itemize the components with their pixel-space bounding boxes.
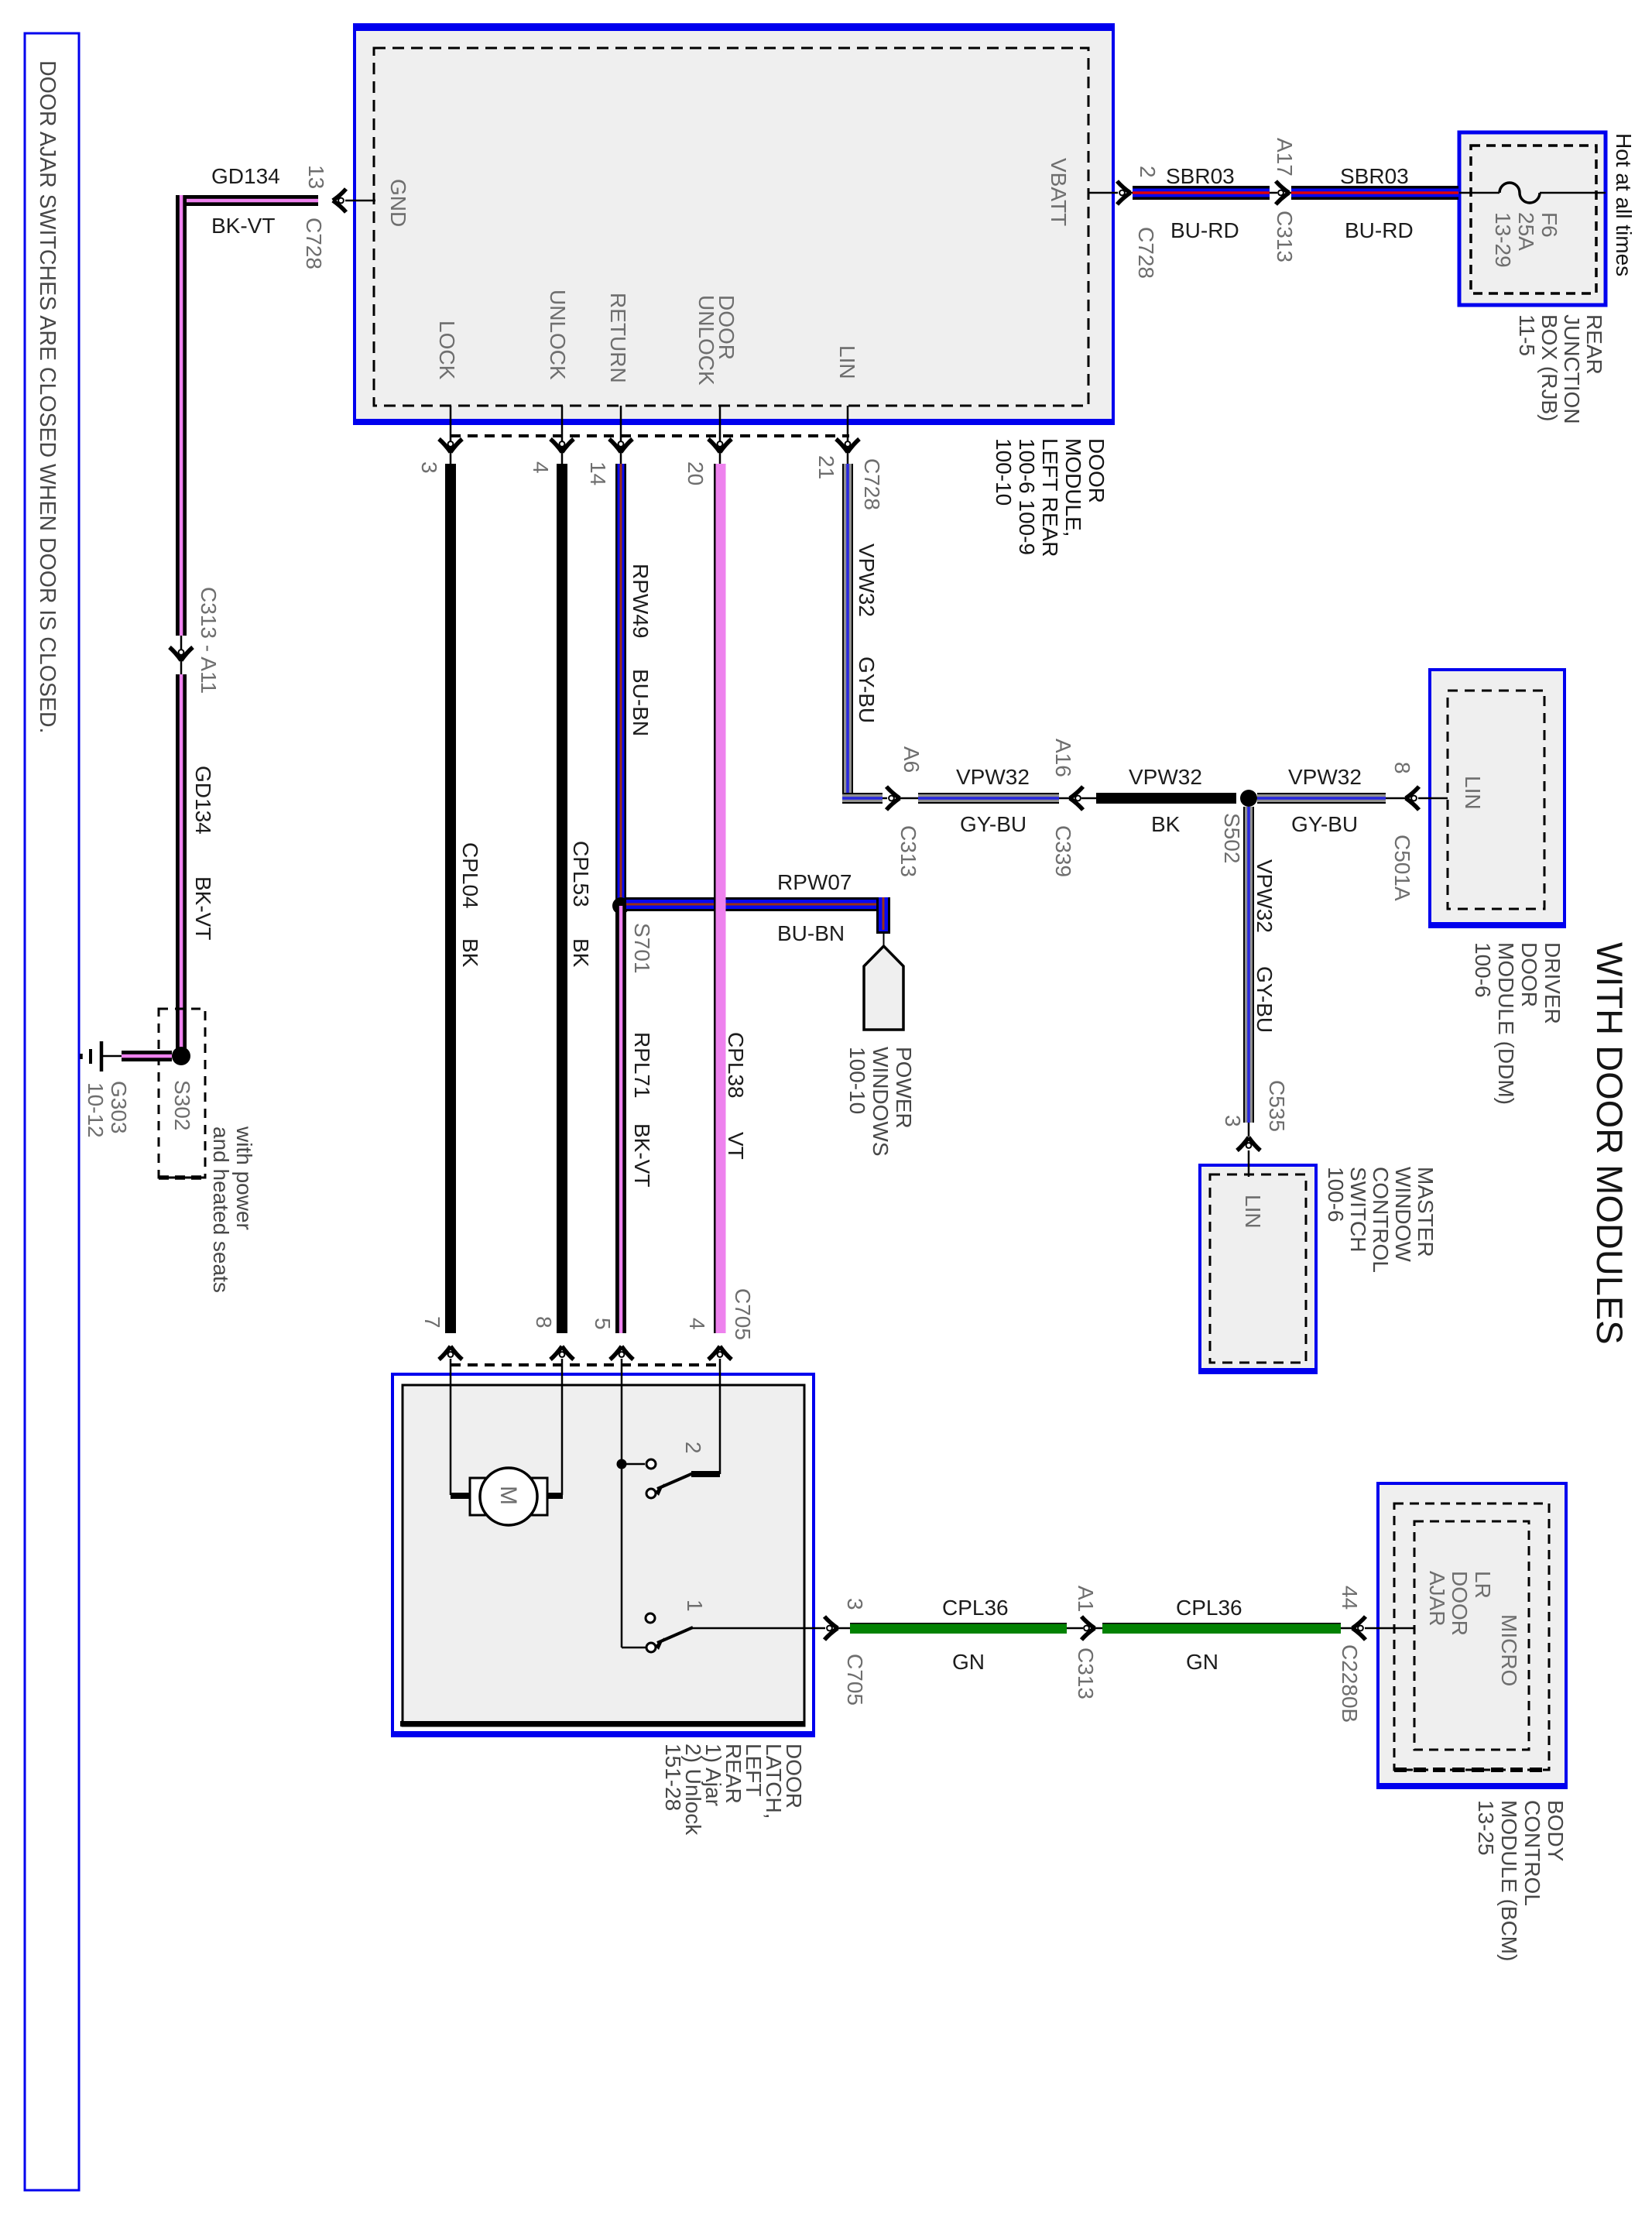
pin lead 20 — [719, 406, 721, 465]
svg-text:10-12: 10-12 — [84, 1082, 108, 1138]
switch 2 moving contact — [646, 1489, 656, 1498]
wire SBR03 BU-RD segment 2 — [1291, 186, 1458, 200]
svg-text:VPW32: VPW32 — [956, 765, 1030, 789]
svg-text:A6: A6 — [900, 746, 924, 773]
lead out of A1 — [1094, 1627, 1103, 1630]
power windows off-page wedge — [864, 946, 903, 1030]
svg-text:VPW32: VPW32 — [1129, 765, 1202, 789]
pin 13 GND lead — [345, 200, 375, 202]
master switch bottom thick border — [1198, 1368, 1318, 1374]
svg-text:21: 21 — [814, 455, 838, 479]
connector arrow C728 pin 20 — [708, 439, 732, 452]
DDM pin lead — [1418, 797, 1448, 800]
DDM inner dashed outline — [1448, 691, 1544, 909]
splice S302 junction dot — [172, 1047, 190, 1065]
connector arrow C705 pin 4 — [708, 1346, 732, 1360]
svg-text:MICRO: MICRO — [1497, 1614, 1521, 1686]
svg-text:13-29: 13-29 — [1491, 212, 1515, 268]
DDM bottom thick border — [1428, 922, 1566, 928]
RJB inner dashed outline — [1471, 146, 1596, 293]
pin lead 4 — [561, 406, 564, 465]
body control module (BCM) box — [1378, 1483, 1566, 1788]
svg-text:8: 8 — [1390, 762, 1414, 774]
svg-text:3: 3 — [1221, 1115, 1245, 1127]
svg-text:GN: GN — [952, 1650, 985, 1674]
svg-text:CPL04: CPL04 — [458, 842, 482, 909]
note box: door ajar switches note — [25, 33, 79, 2190]
wire CPL36 GN segment 2 — [1102, 1623, 1341, 1634]
svg-text:RETURN: RETURN — [606, 293, 630, 383]
svg-text:C339: C339 — [1051, 825, 1075, 877]
pin 2 VBATT lead — [1088, 192, 1118, 194]
lead to C535 arrow — [1248, 1123, 1250, 1137]
BCM outer dashed bottom bold edge — [1394, 1768, 1549, 1772]
latch inner rect bottom thick edge — [400, 1721, 804, 1726]
svg-text:RPW49: RPW49 — [629, 564, 653, 638]
lead to power windows — [883, 934, 885, 949]
connector arrow C535 pin 3 — [1237, 1137, 1260, 1150]
svg-text:BK: BK — [458, 938, 482, 968]
connector C728 dashed line — [451, 434, 849, 437]
svg-text:LIN: LIN — [1241, 1195, 1265, 1229]
door module inner dashed outline — [374, 48, 1088, 406]
svg-text:Hot at all times: Hot at all times — [1612, 133, 1636, 276]
svg-text:C2280B: C2280B — [1338, 1644, 1362, 1723]
door module left rear: box — [355, 25, 1113, 422]
switch 2 junction dot — [617, 1459, 627, 1469]
connector arrow C705 pin 3 — [824, 1617, 838, 1640]
svg-text:BU-RD: BU-RD — [1170, 218, 1239, 242]
svg-text:G303: G303 — [107, 1081, 131, 1134]
svg-text:13: 13 — [304, 165, 328, 189]
connector arrow C728 pin 13 — [333, 189, 346, 212]
svg-text:POWER: POWER — [892, 1047, 916, 1129]
svg-text:1: 1 — [683, 1600, 707, 1612]
wire GD134 BK-VT vertical run lower — [176, 674, 187, 1056]
connector C313-A11 lead — [180, 636, 183, 674]
master switch pin lead — [1248, 1150, 1250, 1177]
svg-text:7: 7 — [420, 1316, 444, 1329]
svg-text:CPL36: CPL36 — [942, 1596, 1009, 1620]
motor terminal tabs — [470, 1478, 485, 1515]
svg-text:A1: A1 — [1074, 1586, 1098, 1612]
svg-text:JUNCTION: JUNCTION — [1560, 314, 1584, 424]
svg-text:with power: with power — [232, 1126, 256, 1230]
door module box bottom thick border — [353, 419, 1115, 425]
svg-text:GY-BU: GY-BU — [960, 812, 1027, 836]
svg-text:WINDOW: WINDOW — [1391, 1167, 1415, 1262]
connector arrow C728 pin 2 — [1117, 181, 1130, 204]
svg-text:GY-BU: GY-BU — [855, 657, 879, 723]
fuse F6 symbol — [1499, 183, 1540, 203]
motor M — [480, 1468, 537, 1525]
wire CPL53 BK (unlock) — [557, 464, 567, 1333]
svg-text:5: 5 — [591, 1318, 615, 1330]
svg-text:BU-BN: BU-BN — [777, 921, 845, 945]
svg-text:AJAR: AJAR — [1425, 1571, 1449, 1627]
lead out of A17 — [1288, 192, 1293, 194]
svg-text:VBATT: VBATT — [1047, 158, 1071, 226]
rear junction box (RJB) — [1459, 132, 1606, 305]
svg-text:A17: A17 — [1273, 138, 1297, 177]
driver door module (DDM) box — [1430, 670, 1565, 927]
svg-text:CONTROL: CONTROL — [1369, 1167, 1393, 1273]
svg-text:4: 4 — [529, 461, 553, 474]
svg-text:S302: S302 — [170, 1080, 194, 1130]
svg-text:4: 4 — [685, 1318, 709, 1330]
splice S701 junction dot — [612, 897, 629, 914]
svg-text:BODY: BODY — [1544, 1800, 1568, 1862]
svg-text:GD134: GD134 — [211, 164, 280, 188]
door module box top thick border — [353, 23, 1115, 31]
svg-text:CONTROL: CONTROL — [1520, 1800, 1544, 1906]
connector arrow A6/C313 — [886, 787, 900, 810]
svg-text:C313: C313 — [1074, 1648, 1098, 1699]
wire CPL38 VT (door unlock) — [714, 464, 716, 1333]
svg-text:MODULE,: MODULE, — [1061, 438, 1085, 537]
connector arrow C728 pin 14 — [609, 439, 632, 452]
svg-text:LEFT REAR: LEFT REAR — [1038, 438, 1062, 557]
switch 2 fixed contact — [646, 1459, 656, 1469]
wire VPW32 GY-BU vertical from pin 21 — [842, 464, 853, 804]
svg-text:GY-BU: GY-BU — [1253, 966, 1277, 1033]
splice S302 box bold bottom dashes — [159, 1175, 205, 1180]
svg-text:GN: GN — [1186, 1650, 1218, 1674]
switch 2 arm — [657, 1473, 693, 1489]
svg-text:2: 2 — [1136, 166, 1160, 178]
lead into A17 — [1270, 192, 1277, 194]
svg-text:44: 44 — [1338, 1586, 1362, 1610]
connector C705 dashed line — [451, 1363, 720, 1366]
connector arrow C728 pin 21 — [836, 439, 859, 452]
svg-text:2: 2 — [681, 1442, 705, 1454]
svg-text:25A: 25A — [1514, 212, 1538, 251]
motor feed stubs — [451, 1493, 471, 1499]
lead out of A16 — [1081, 797, 1097, 800]
master window control switch box — [1200, 1165, 1316, 1373]
wire RPW07 BU-BN — [626, 897, 890, 911]
pin lead 14 — [620, 406, 622, 465]
svg-text:DOOR: DOOR — [1085, 438, 1109, 503]
lead out of C728 pin 2 — [1129, 192, 1133, 194]
svg-text:WITH DOOR MODULES: WITH DOOR MODULES — [1589, 942, 1630, 1345]
BCM bottom thick border — [1376, 1783, 1568, 1789]
svg-text:151-28: 151-28 — [661, 1744, 685, 1811]
pin lead 21 — [847, 406, 849, 465]
lead out of C705 pin 3 — [837, 1627, 851, 1630]
svg-text:8: 8 — [532, 1316, 556, 1329]
ground lead line — [102, 1055, 122, 1058]
svg-text:VPW32: VPW32 — [1253, 859, 1277, 933]
switch 1 output line — [691, 1627, 825, 1630]
svg-text:BU-BN: BU-BN — [629, 669, 653, 736]
BCM outer dashed outline — [1394, 1504, 1549, 1770]
svg-text:CPL38: CPL38 — [724, 1032, 748, 1099]
connector arrow C705 pin 7 — [439, 1346, 462, 1360]
svg-text:GND: GND — [386, 179, 410, 227]
svg-text:LOCK: LOCK — [435, 321, 459, 380]
svg-text:CPL53: CPL53 — [569, 841, 593, 907]
svg-text:S701: S701 — [630, 923, 654, 973]
svg-text:LIN: LIN — [835, 345, 859, 379]
svg-text:13-25: 13-25 — [1474, 1800, 1498, 1856]
svg-text:MASTER: MASTER — [1414, 1167, 1438, 1257]
connector arrow C501A pin 8 — [1406, 787, 1419, 810]
svg-text:C705: C705 — [843, 1654, 867, 1706]
connector arrow A17/C313 — [1276, 181, 1289, 204]
fuse feed line — [1459, 192, 1499, 194]
connector arrow C728 pin 4 — [550, 439, 574, 452]
lead out of A6 — [899, 797, 919, 800]
wire VPW32 BK segment — [1096, 793, 1236, 804]
wire SBR03 BU-RD segment 1 — [1133, 186, 1270, 200]
wire RPW49 BU-BN (return) — [615, 464, 626, 906]
svg-text:11-5: 11-5 — [1515, 314, 1539, 356]
svg-text:BOX (RJB): BOX (RJB) — [1537, 314, 1561, 421]
svg-text:100-6: 100-6 — [1324, 1167, 1348, 1222]
svg-text:C313: C313 — [896, 825, 920, 877]
switch 2 stub — [622, 1463, 645, 1466]
svg-text:100-10: 100-10 — [992, 438, 1016, 506]
svg-text:100-6: 100-6 — [1471, 942, 1495, 998]
svg-text:C705: C705 — [731, 1288, 755, 1340]
svg-text:BK-VT: BK-VT — [211, 214, 275, 238]
wire BK-VT to ground — [122, 1051, 172, 1061]
svg-text:DOOR: DOOR — [1448, 1571, 1472, 1636]
switch 1 arm — [657, 1627, 693, 1643]
svg-text:DOOR: DOOR — [1517, 942, 1541, 1007]
svg-text:DOOR AJAR SWITCHES ARE CLOSED: DOOR AJAR SWITCHES ARE CLOSED WHEN DOOR … — [35, 60, 60, 733]
connector arrow C705 pin 8 — [550, 1346, 574, 1360]
svg-text:REAR: REAR — [1582, 314, 1606, 375]
master switch inner dashed outline — [1210, 1174, 1306, 1363]
svg-text:WINDOWS: WINDOWS — [869, 1047, 893, 1157]
svg-text:VPW32: VPW32 — [855, 543, 879, 617]
latch pin leads — [450, 1359, 452, 1495]
svg-text:SBR03: SBR03 — [1340, 164, 1409, 188]
connector arrow C705 pin 5 — [610, 1346, 633, 1360]
svg-text:GY-BU: GY-BU — [1291, 812, 1358, 836]
svg-text:100-10: 100-10 — [845, 1047, 869, 1114]
connector arrow C2280B pin 44 — [1352, 1617, 1366, 1640]
svg-text:MODULE (DDM): MODULE (DDM) — [1494, 942, 1518, 1105]
wire RPL71 BK-VT — [615, 906, 626, 1333]
connector arrow A1/C313 — [1081, 1617, 1095, 1640]
svg-text:CPL36: CPL36 — [1176, 1596, 1242, 1620]
ground symbol G303 — [100, 1041, 104, 1071]
svg-text:A16: A16 — [1051, 739, 1075, 777]
svg-text:MODULE (BCM): MODULE (BCM) — [1497, 1800, 1521, 1961]
svg-text:20: 20 — [684, 461, 708, 485]
svg-text:C501A: C501A — [1390, 835, 1414, 901]
svg-text:RPL71: RPL71 — [630, 1032, 654, 1099]
lead into C2280B — [1341, 1627, 1353, 1630]
wire RPW07 elbow down — [876, 897, 890, 934]
svg-text:M: M — [495, 1486, 521, 1505]
svg-text:BK: BK — [1151, 812, 1181, 836]
svg-text:S502: S502 — [1220, 813, 1244, 863]
svg-text:3: 3 — [417, 461, 441, 474]
svg-text:VPW32: VPW32 — [1288, 765, 1362, 789]
wire VPW32 GY-BU middle segment — [918, 793, 1059, 804]
svg-text:BK: BK — [569, 938, 593, 968]
splice S502 junction dot — [1240, 790, 1257, 807]
svg-text:C728: C728 — [860, 458, 884, 510]
pin lead 3 — [450, 406, 452, 465]
svg-text:and heated seats: and heated seats — [209, 1126, 233, 1293]
svg-text:SWITCH: SWITCH — [1346, 1167, 1370, 1252]
svg-text:C728: C728 — [302, 218, 326, 269]
splice S302 dashed box — [159, 1009, 205, 1178]
svg-text:3: 3 — [843, 1598, 867, 1610]
lead to DDM pin 8 — [1386, 797, 1406, 800]
svg-text:SBR03: SBR03 — [1166, 164, 1235, 188]
svg-text:C313: C313 — [1273, 211, 1297, 262]
connector arrow A16/C339 — [1070, 787, 1083, 810]
wire CPL04 BK (lock) — [445, 464, 456, 1333]
svg-text:LR: LR — [1471, 1571, 1495, 1599]
svg-text:GD134: GD134 — [191, 766, 215, 835]
svg-text:VT: VT — [724, 1132, 748, 1160]
wire VPW32 GY-BU to DDM — [1257, 793, 1386, 804]
svg-text:14: 14 — [586, 461, 610, 485]
svg-text:UNLOCK: UNLOCK — [694, 295, 718, 386]
latch box bottom thick border — [391, 1731, 815, 1737]
wire VPW32 GY-BU corner run — [842, 793, 883, 804]
svg-text:LIN: LIN — [1461, 776, 1485, 810]
svg-text:C728: C728 — [1134, 227, 1158, 279]
wire CPL36 GN segment 1 — [850, 1623, 1067, 1634]
switch 2 wire to pin 4 — [691, 1471, 720, 1477]
switch 1 fixed contact — [646, 1613, 655, 1623]
svg-text:BK-VT: BK-VT — [191, 876, 215, 940]
svg-text:UNLOCK: UNLOCK — [546, 290, 570, 380]
svg-text:BK-VT: BK-VT — [630, 1123, 654, 1187]
svg-text:C313 - A11: C313 - A11 — [197, 587, 221, 694]
lead into A16 — [1059, 797, 1071, 800]
switch 1 elbow — [622, 1647, 646, 1649]
door latch left rear box — [392, 1374, 814, 1736]
svg-text:100-6 100-9: 100-6 100-9 — [1015, 438, 1039, 555]
wire VPW32 GY-BU to master window switch — [1243, 807, 1254, 1123]
svg-text:C535: C535 — [1265, 1080, 1289, 1132]
connector arrow C313-A11 — [170, 647, 193, 660]
svg-text:RPW07: RPW07 — [777, 870, 852, 894]
latch inner rect — [403, 1385, 804, 1726]
lead into A1 — [1067, 1627, 1083, 1630]
svg-text:BU-RD: BU-RD — [1345, 218, 1414, 242]
connector arrow C728 pin 3 — [439, 439, 462, 452]
svg-text:F6: F6 — [1537, 212, 1561, 238]
switch 1 moving contact — [646, 1643, 656, 1652]
BCM pin lead — [1365, 1627, 1414, 1630]
wire GD134 BK-VT horizontal run — [176, 195, 318, 206]
wire GD134 BK-VT vertical run upper — [176, 195, 187, 636]
BCM micro dashed outline — [1414, 1521, 1529, 1750]
lead to A6 — [883, 797, 887, 800]
svg-text:DRIVER: DRIVER — [1541, 942, 1565, 1024]
